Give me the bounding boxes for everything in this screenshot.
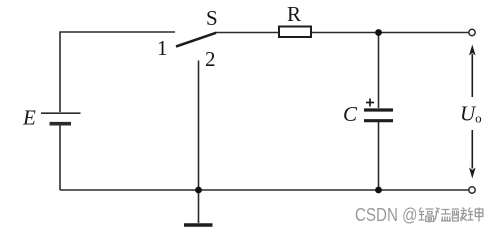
- svg-text:CSDN @: CSDN @: [355, 205, 418, 225]
- Uo arrow upper shaft with up arrowhead: [469, 45, 476, 98]
- terminal top-right open circle: [469, 29, 475, 35]
- svg-text:E: E: [22, 106, 36, 130]
- watermark glyph 1: [419, 208, 434, 222]
- switch S blade: [176, 33, 216, 47]
- capacitor polarity plus: [366, 99, 374, 107]
- wire battery negative to bottom rail: [59, 124, 61, 190]
- wire from switch pivot to resistor: [215, 32, 279, 34]
- watermark glyph 3: [452, 208, 467, 222]
- svg-text:S: S: [206, 6, 218, 30]
- capacitor C plates: [364, 110, 393, 121]
- ground stem: [198, 190, 200, 223]
- terminal bottom-right open circle: [469, 187, 475, 193]
- node junction dot at ground/bottom rail: [195, 187, 202, 194]
- wire capacitor top lead: [378, 33, 380, 109]
- Uo arrow lower shaft with down arrowhead: [469, 130, 476, 179]
- wire top-left from battery to switch contact 1: [60, 32, 175, 112]
- wire from resistor to top-right terminal: [311, 32, 469, 34]
- node junction dot at R-C top: [375, 29, 382, 36]
- watermark glyph 4: [468, 208, 483, 222]
- svg-text:1: 1: [157, 36, 168, 60]
- watermark glyph 2: [435, 208, 452, 221]
- resistor R body: [279, 27, 311, 38]
- svg-text:Uo: Uo: [460, 102, 482, 126]
- battery E plates: [41, 113, 81, 124]
- wire bottom rail: [60, 189, 469, 191]
- node junction dot at C bottom rail: [375, 187, 382, 194]
- ground bar: [184, 223, 213, 226]
- svg-text:R: R: [287, 2, 301, 26]
- svg-text:2: 2: [205, 47, 216, 71]
- svg-text:C: C: [343, 102, 358, 126]
- wire switch contact 2 down to bottom rail: [198, 61, 200, 191]
- wire capacitor bottom lead: [378, 122, 380, 190]
